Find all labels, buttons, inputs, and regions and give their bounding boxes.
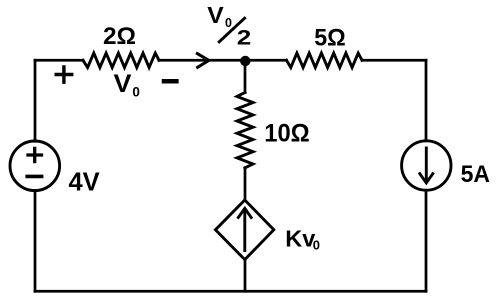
voltage source minus sign bbox=[27, 175, 41, 179]
svg-text:0: 0 bbox=[225, 16, 232, 30]
node A junction dot bbox=[240, 56, 250, 66]
resistor R3 10&#937; zigzag bbox=[237, 93, 253, 168]
wire bottom horizontal bbox=[35, 290, 426, 293]
wire top-left segment bbox=[35, 59, 83, 62]
svg-text:0: 0 bbox=[313, 237, 320, 252]
svg-text:2Ω: 2Ω bbox=[103, 23, 136, 50]
resistor R2 5&#937; zigzag bbox=[287, 53, 363, 67]
svg-text:2: 2 bbox=[237, 25, 252, 49]
wire R3 to dependent source bbox=[244, 168, 247, 200]
dependent current source diamond bbox=[215, 200, 273, 260]
wire top-middle segment bbox=[159, 59, 287, 62]
voltage source plus sign bbox=[28, 148, 42, 161]
voltage source V1 circle bbox=[10, 141, 60, 191]
resistor R1 2&#937; zigzag bbox=[83, 53, 159, 67]
dependent source arrow shaft bbox=[243, 211, 246, 251]
svg-text:Kv: Kv bbox=[285, 225, 315, 251]
current source arrow shaft bbox=[425, 148, 428, 181]
svg-text:4V: 4V bbox=[68, 168, 99, 196]
current source arrow head bbox=[420, 174, 433, 183]
svg-text:5A: 5A bbox=[461, 161, 490, 188]
fraction slash of node label V0/2 bbox=[219, 18, 244, 42]
wire top-right segment bbox=[362, 59, 426, 62]
current direction arrow on top wire bbox=[197, 54, 209, 68]
wire middle node to R3 bbox=[244, 60, 247, 92]
svg-text:V: V bbox=[114, 70, 132, 98]
svg-text:10Ω: 10Ω bbox=[264, 119, 310, 147]
minus sign label right of R1 bbox=[164, 79, 176, 84]
svg-text:5Ω: 5Ω bbox=[314, 24, 346, 51]
svg-text:V: V bbox=[207, 2, 224, 28]
wire dependent source to bottom bbox=[244, 260, 247, 292]
dependent source arrow head bbox=[238, 208, 251, 217]
wire left vertical lower bbox=[34, 191, 37, 292]
wire left vertical upper bbox=[34, 60, 37, 141]
wire right vertical upper bbox=[425, 60, 428, 141]
plus sign label left of R1 bbox=[56, 67, 71, 82]
current source I1 circle bbox=[402, 141, 451, 190]
wire right vertical lower bbox=[425, 190, 428, 291]
svg-text:0: 0 bbox=[132, 85, 140, 100]
